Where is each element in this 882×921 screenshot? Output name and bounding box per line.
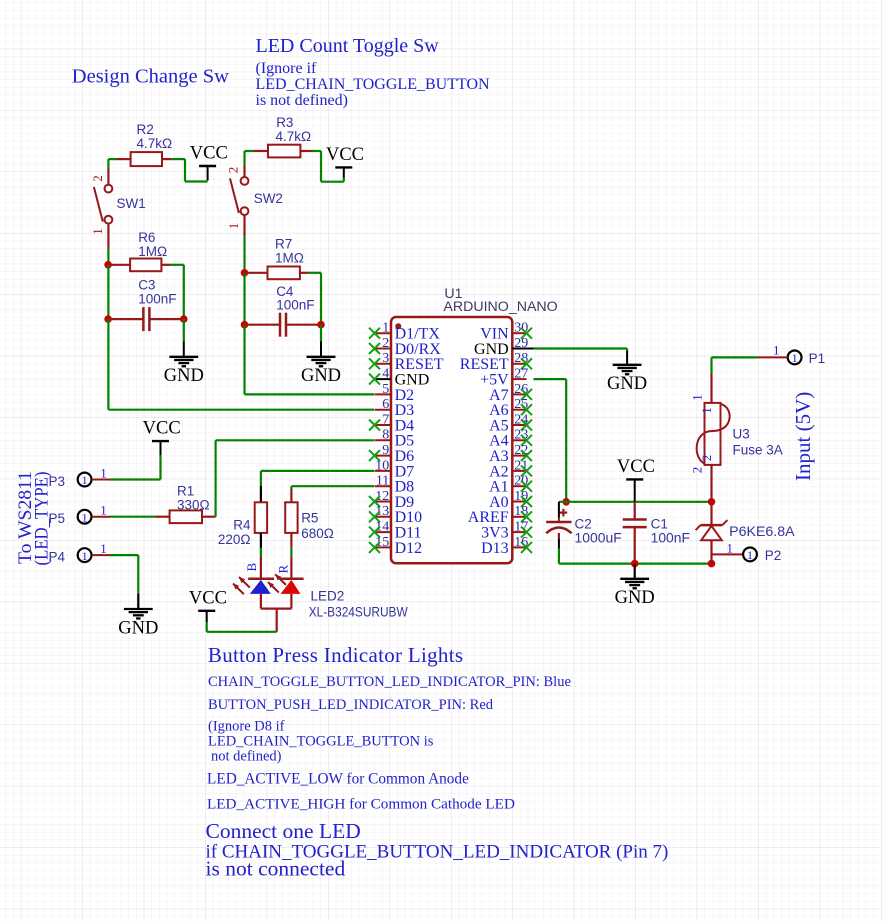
svg-text:SW1: SW1 [117, 196, 146, 211]
U1 pin 19 A0 [489, 489, 528, 511]
connector P5 [78, 510, 110, 524]
wire U1 pin 27 +5V to VCC rail [534, 379, 567, 502]
svg-text:R6: R6 [138, 230, 155, 245]
svg-text:1000uF: 1000uF [575, 531, 622, 546]
svg-text:BUTTON_PUSH_LED_INDICATOR_PIN:: BUTTON_PUSH_LED_INDICATOR_PIN: Red [208, 697, 494, 713]
wire R7 node down to C4 node [243, 273, 245, 325]
no-connect cross pin 25 [521, 404, 532, 415]
svg-text:1: 1 [226, 223, 241, 230]
svg-text:R7: R7 [275, 236, 292, 251]
VCC rail wire [559, 501, 712, 503]
svg-text:27: 27 [514, 367, 528, 382]
svg-text:P1: P1 [809, 351, 826, 366]
wire SW2 chain to U1 pin 5 D2 [245, 325, 375, 395]
ground symbol below GND rail [615, 565, 655, 609]
U1 pin 2 D0/RX [375, 336, 442, 358]
svg-text:13: 13 [375, 504, 389, 519]
svg-text:1: 1 [100, 541, 107, 556]
svg-text:2: 2 [382, 336, 389, 351]
junction at +5V rail left [562, 498, 570, 506]
svg-text:8: 8 [382, 428, 389, 443]
no-connect cross pin 9 [369, 450, 380, 461]
connector P1 [758, 351, 802, 365]
wire R6 node down to C3 node [107, 265, 109, 319]
svg-text:100nF: 100nF [138, 292, 176, 307]
wire fuse to VCC rail junction [710, 465, 712, 502]
resistor R1 [156, 510, 216, 523]
svg-text:1: 1 [82, 473, 88, 487]
svg-text:Design Change Sw: Design Change Sw [72, 66, 229, 88]
U1 pin 7 D4 [375, 412, 415, 434]
U1 pin 25 A6 [489, 397, 528, 419]
no-connect cross pin 18 [521, 511, 532, 522]
svg-text:C2: C2 [575, 516, 592, 531]
svg-text:2: 2 [690, 467, 705, 474]
svg-text:(Ignore if: (Ignore if [256, 60, 318, 77]
U1 pin 4 GND [375, 367, 430, 389]
wire C3 right to GND [183, 319, 185, 341]
svg-text:1: 1 [690, 394, 705, 401]
resistor R5 [285, 502, 297, 533]
wire R2 left to SW1 [108, 159, 116, 185]
wire SW1 to R6 node [107, 224, 109, 265]
svg-text:7: 7 [382, 412, 389, 427]
op-amp U1 ARDUINO_NANO body [391, 317, 512, 563]
wire R1 to U1 pin 8 D5 [216, 440, 374, 516]
svg-text:R4: R4 [233, 518, 251, 533]
VCC power symbol at LED2 [189, 588, 227, 622]
U1 pin 8 D5 [375, 428, 415, 450]
svg-text:1: 1 [699, 407, 714, 414]
svg-text:4.7kΩ: 4.7kΩ [276, 129, 312, 144]
fuse U3 [697, 403, 730, 465]
C2 plus sign [560, 509, 568, 517]
svg-text:4: 4 [382, 367, 389, 382]
LED2 red emission arrows [268, 574, 286, 592]
U1 pin 13 D10 [375, 504, 423, 526]
svg-text:330Ω: 330Ω [177, 497, 210, 512]
wire LED2 common anode to VCC [207, 609, 292, 632]
svg-text:LED_CHAIN_TOGGLE_BUTTON is: LED_CHAIN_TOGGLE_BUTTON is [208, 734, 434, 750]
no-connect cross pin 13 [369, 511, 380, 522]
U1 pin 1 origin dot [395, 323, 401, 329]
no-connect cross pin 3 [369, 358, 380, 369]
connector P2 [743, 548, 757, 562]
svg-text:100nF: 100nF [276, 298, 314, 313]
junction at SW2/R7 [241, 269, 249, 277]
svg-text:VCC: VCC [189, 588, 227, 608]
wire P3 to VCC [110, 455, 161, 480]
resistor R2 [117, 152, 172, 166]
svg-text:not defined): not defined) [211, 749, 282, 765]
no-connect cross pin 26 [521, 389, 532, 400]
svg-text:GND: GND [615, 588, 655, 608]
svg-text:LED2: LED2 [311, 588, 345, 603]
wire R3 left to SW2 [245, 151, 255, 177]
wire R2 right to VCC [172, 159, 208, 181]
U1 pin 21 A2 [489, 458, 528, 480]
switch SW1 [94, 185, 112, 224]
svg-text:1: 1 [100, 466, 107, 481]
wire C4 right to GND [320, 325, 322, 342]
no-connect cross pin 17 [521, 527, 532, 538]
U1 pin 12 D9 [375, 489, 415, 511]
VCC power symbol at R3 [326, 145, 364, 178]
ground symbol below P4 [118, 594, 158, 639]
LED2 red element [280, 579, 304, 609]
no-connect cross pin 21 [521, 465, 532, 476]
U1 pin 30 VIN [480, 321, 528, 343]
svg-text:3: 3 [382, 351, 389, 366]
no-connect cross pin 7 [369, 420, 380, 431]
no-connect cross pin 19 [521, 496, 532, 507]
resistor R6 [111, 259, 170, 272]
svg-text:2: 2 [226, 167, 241, 174]
no-connect cross pin 4 [369, 374, 380, 385]
capacitor C3 [110, 307, 184, 331]
U1 pin 16 D13 [481, 535, 528, 557]
svg-text:R1: R1 [177, 483, 194, 498]
U1 pin 9 D6 [375, 443, 415, 465]
svg-text:is not defined): is not defined) [256, 92, 348, 109]
U1 pin 27 +5V [480, 367, 528, 389]
svg-text:LED Count Toggle Sw: LED Count Toggle Sw [256, 35, 440, 57]
svg-text:1: 1 [100, 503, 107, 518]
svg-text:VCC: VCC [143, 419, 181, 439]
svg-text:1MΩ: 1MΩ [138, 244, 167, 259]
svg-text:VCC: VCC [617, 457, 655, 477]
connector P3 [78, 473, 110, 487]
no-connect cross pin 20 [521, 481, 532, 492]
VCC power symbol at P3 [143, 419, 181, 455]
wire U1 pin 29 GND to ground [512, 349, 627, 352]
no-connect cross pin 30 [521, 328, 532, 339]
svg-text:R3: R3 [276, 115, 293, 130]
svg-text:1MΩ: 1MΩ [275, 250, 304, 265]
svg-text:U3: U3 [733, 427, 750, 442]
svg-text:Input (5V): Input (5V) [791, 392, 815, 481]
U1 pin 23 A4 [489, 428, 528, 450]
wire U1 pin 11 D8 to R5 [291, 486, 374, 502]
svg-text:6: 6 [382, 397, 389, 412]
svg-text:Connect one LED: Connect one LED [206, 819, 361, 843]
svg-text:P2: P2 [765, 548, 782, 563]
svg-text:R5: R5 [301, 510, 318, 525]
svg-text:GND: GND [301, 366, 341, 386]
svg-text:15: 15 [375, 535, 389, 550]
svg-text:SW2: SW2 [254, 191, 283, 206]
junction at C3 left [104, 315, 112, 323]
svg-text:R: R [276, 565, 291, 574]
wire U1 pin 10 D7 to R4 [261, 471, 374, 502]
connector P4 [78, 548, 110, 562]
U1 pin 20 A1 [489, 474, 528, 496]
wire R6 right down to C3 [170, 265, 184, 319]
junction at C4 right [317, 321, 325, 329]
svg-text:10: 10 [375, 458, 389, 473]
ground symbol below C4 [301, 342, 341, 387]
wire R7 right down to C4 [308, 273, 321, 325]
svg-text:C1: C1 [651, 516, 668, 531]
U1 pin 15 D12 [375, 535, 423, 557]
svg-text:1: 1 [773, 343, 780, 358]
U1 pin 3 RESET [375, 351, 444, 373]
wire P5 to R1 [110, 516, 156, 518]
svg-text:100nF: 100nF [651, 531, 690, 546]
wire diode to P2 [712, 553, 744, 555]
no-connect cross pin 12 [369, 496, 380, 507]
wire SW1 chain to U1 pin 6 D3 [108, 319, 374, 410]
svg-text:P6KE6.8A: P6KE6.8A [729, 524, 794, 539]
junction at C4 left [241, 321, 249, 329]
U1 pin 29 GND [474, 336, 528, 358]
svg-text:ARDUINO_NANO: ARDUINO_NANO [443, 299, 557, 315]
svg-text:LED_ACTIVE_HIGH for Common Cat: LED_ACTIVE_HIGH for Common Cathode LED [207, 796, 515, 813]
svg-text:Fuse 3A: Fuse 3A [733, 443, 783, 458]
svg-text:is not connected: is not connected [206, 857, 346, 881]
resistor R4 [255, 502, 267, 533]
capacitor C2 polarized [546, 502, 571, 564]
capacitor C1 [623, 502, 647, 564]
ground symbol at U1 pin 29 [607, 351, 647, 394]
wire P4 to GND [110, 555, 138, 594]
svg-text:GND: GND [607, 374, 647, 394]
junction at SW1/R6 [104, 261, 112, 269]
svg-text:GND: GND [118, 618, 158, 638]
svg-text:2: 2 [699, 455, 714, 462]
resistor R7 [248, 267, 309, 280]
U1 pin 26 A7 [489, 382, 528, 404]
svg-text:LED_ACTIVE_LOW for Common Anod: LED_ACTIVE_LOW for Common Anode [207, 771, 469, 788]
U1 pin 22 A3 [489, 443, 528, 465]
wire P1 to fuse U3 [712, 357, 758, 403]
U1 pin 6 D3 [375, 397, 415, 419]
svg-text:2: 2 [90, 175, 105, 182]
no-connect cross pin 22 [521, 450, 532, 461]
svg-text:1: 1 [727, 540, 734, 555]
U1 pin 17 3V3 [481, 520, 528, 542]
VCC power symbol at C1 [617, 457, 655, 502]
svg-text:C3: C3 [138, 278, 155, 293]
svg-text:4.7kΩ: 4.7kΩ [137, 136, 173, 151]
U1 pin 28 RESET [460, 351, 528, 373]
svg-text:GND: GND [164, 366, 204, 386]
svg-text:1: 1 [90, 228, 105, 235]
U1 pin 1 D1/TX [375, 321, 441, 343]
svg-text:CHAIN_TOGGLE_BUTTON_LED_INDICA: CHAIN_TOGGLE_BUTTON_LED_INDICATOR_PIN: B… [208, 674, 571, 690]
diode D P6KE6.8A [696, 502, 728, 564]
capacitor C4 [247, 313, 321, 337]
LED2 blue element [248, 579, 274, 609]
wire R4 to LED2 blue anode [260, 533, 262, 579]
svg-text:12: 12 [375, 489, 389, 504]
no-connect cross pin 23 [521, 435, 532, 446]
resistor R3 [254, 145, 312, 158]
svg-text:5: 5 [382, 382, 389, 397]
svg-text:11: 11 [376, 474, 389, 489]
ground symbol below C3 [164, 342, 204, 387]
svg-text:Button Press Indicator Lights: Button Press Indicator Lights [208, 643, 463, 667]
svg-text:VCC: VCC [190, 144, 228, 164]
svg-text:680Ω: 680Ω [301, 526, 334, 541]
junction at GND rail right [708, 560, 716, 568]
U1 pin 24 A5 [489, 412, 528, 434]
no-connect cross pin 16 [521, 542, 532, 553]
U1 pin 11 D8 [375, 474, 415, 496]
no-connect cross pin 1 [369, 328, 380, 339]
junction at C1 bottom [631, 560, 639, 568]
GND rail wire [559, 562, 712, 564]
switch SW2 [230, 177, 248, 215]
svg-text:R2: R2 [137, 122, 154, 137]
svg-text:220Ω: 220Ω [218, 532, 251, 547]
svg-text:D13: D13 [481, 540, 509, 557]
svg-text:(Ignore D8 if: (Ignore D8 if [208, 719, 285, 735]
svg-text:VCC: VCC [326, 145, 364, 165]
U1 pin 18 AREF [468, 504, 529, 526]
svg-text:B: B [244, 563, 259, 572]
svg-text:14: 14 [375, 520, 389, 535]
svg-text:1: 1 [792, 351, 798, 365]
svg-text:1: 1 [747, 548, 753, 562]
svg-text:(LED_TYPE): (LED_TYPE) [32, 472, 53, 566]
wire SW2 to R7 node [243, 215, 245, 273]
svg-text:1: 1 [82, 510, 88, 524]
svg-text:D12: D12 [395, 540, 423, 557]
svg-text:1: 1 [382, 321, 389, 336]
U1 pin 5 D2 [375, 382, 415, 404]
no-connect cross pin 15 [369, 542, 380, 553]
svg-text:1: 1 [82, 549, 88, 563]
VCC power symbol at R2 [190, 144, 228, 181]
U1 pin 10 D7 [375, 458, 415, 480]
no-connect cross pin 28 [521, 358, 532, 369]
junction at VCC rail right [708, 498, 716, 506]
LED2 blue emission arrows [233, 577, 250, 594]
svg-text:LED_CHAIN_TOGGLE_BUTTON: LED_CHAIN_TOGGLE_BUTTON [256, 76, 491, 93]
svg-text:XL-B324SURUBW: XL-B324SURUBW [309, 604, 408, 619]
junction at C3 right [180, 315, 188, 323]
no-connect cross pin 24 [521, 420, 532, 431]
wire R3 right to VCC [312, 151, 344, 182]
svg-text:9: 9 [382, 443, 389, 458]
wire R5 to LED2 red anode [290, 533, 292, 579]
no-connect cross pin 14 [369, 527, 380, 538]
no-connect cross pin 2 [369, 343, 380, 354]
U1 pin 14 D11 [375, 520, 422, 542]
